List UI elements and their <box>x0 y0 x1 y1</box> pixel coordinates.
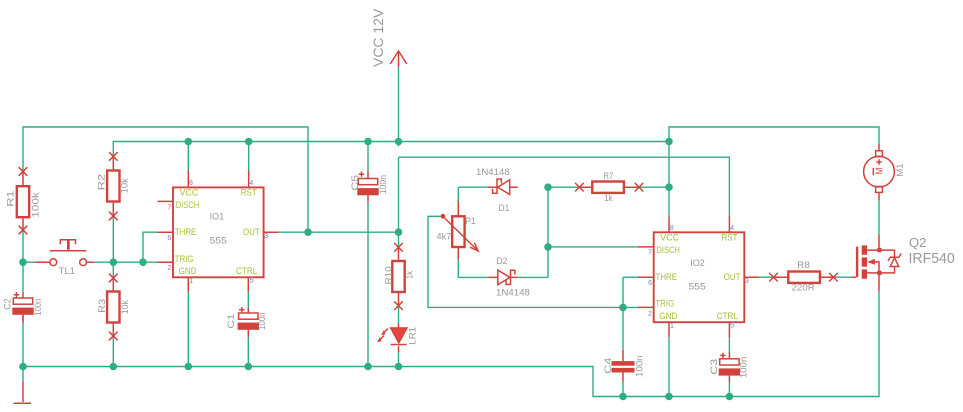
svg-text:R7: R7 <box>603 171 613 181</box>
svg-text:TL1: TL1 <box>59 266 75 276</box>
svg-text:100k: 100k <box>30 192 40 218</box>
svg-text:CTRL: CTRL <box>717 311 738 321</box>
svg-text:3: 3 <box>745 278 749 285</box>
svg-text:8: 8 <box>670 225 674 232</box>
svg-text:D2: D2 <box>497 256 508 266</box>
svg-text:6: 6 <box>167 235 171 242</box>
svg-text:4k7: 4k7 <box>437 232 452 242</box>
svg-text:2: 2 <box>648 310 652 317</box>
svg-text:THRE: THRE <box>175 227 197 237</box>
svg-text:IRF540: IRF540 <box>909 250 955 267</box>
svg-text:100n: 100n <box>33 299 43 316</box>
svg-text:R1: R1 <box>5 191 15 207</box>
svg-text:D1: D1 <box>499 203 510 213</box>
svg-text:M1: M1 <box>895 164 905 177</box>
svg-text:1: 1 <box>670 323 674 330</box>
svg-text:IO2: IO2 <box>690 258 705 268</box>
svg-text:IO1: IO1 <box>210 212 225 222</box>
svg-text:100n: 100n <box>378 175 388 194</box>
svg-text:RST: RST <box>241 188 257 198</box>
svg-text:6: 6 <box>648 280 652 287</box>
svg-text:10k: 10k <box>119 178 129 194</box>
svg-text:555: 555 <box>210 236 227 246</box>
svg-text:VCC: VCC <box>660 232 680 242</box>
svg-text:R2: R2 <box>97 174 107 190</box>
svg-text:7: 7 <box>167 204 171 211</box>
svg-text:100n: 100n <box>738 357 748 379</box>
svg-text:8: 8 <box>189 180 193 187</box>
svg-text:GND: GND <box>179 266 197 276</box>
svg-text:2: 2 <box>167 265 171 272</box>
svg-text:100n: 100n <box>257 313 267 330</box>
svg-text:1N4148: 1N4148 <box>476 167 510 177</box>
svg-text:M: M <box>875 168 886 175</box>
svg-text:1k: 1k <box>604 193 613 203</box>
svg-text:4: 4 <box>249 180 253 187</box>
svg-text:THRE: THRE <box>656 272 678 282</box>
svg-text:5: 5 <box>250 278 254 285</box>
svg-text:OUT: OUT <box>724 272 741 282</box>
svg-text:LR1: LR1 <box>407 327 417 345</box>
svg-text:R8: R8 <box>797 260 810 270</box>
svg-text:DISCH: DISCH <box>656 245 680 255</box>
svg-text:DISCH: DISCH <box>176 200 200 210</box>
svg-text:4: 4 <box>730 225 734 232</box>
svg-text:555: 555 <box>689 282 706 292</box>
svg-text:TRIG: TRIG <box>175 254 194 264</box>
svg-text:GND: GND <box>659 311 677 321</box>
svg-text:CTRL: CTRL <box>236 266 257 276</box>
svg-text:5: 5 <box>730 323 734 330</box>
svg-text:R3: R3 <box>97 299 107 313</box>
svg-text:1: 1 <box>189 278 193 285</box>
svg-text:C2: C2 <box>2 298 12 309</box>
svg-text:C3: C3 <box>709 359 719 375</box>
svg-text:TRIG: TRIG <box>656 299 675 309</box>
svg-text:220R: 220R <box>792 282 816 292</box>
svg-text:100n: 100n <box>635 355 645 377</box>
svg-text:C5: C5 <box>350 175 360 191</box>
svg-text:1k: 1k <box>404 270 414 279</box>
svg-text:VCC: VCC <box>180 188 200 198</box>
svg-text:C4: C4 <box>603 358 613 374</box>
svg-text:VCC 12V: VCC 12V <box>370 8 386 67</box>
svg-text:7: 7 <box>648 249 652 256</box>
svg-text:3: 3 <box>264 233 268 240</box>
svg-text:OUT: OUT <box>243 227 260 237</box>
svg-text:C1: C1 <box>226 314 236 329</box>
svg-text:R10: R10 <box>384 266 394 284</box>
svg-text:P1: P1 <box>465 216 476 226</box>
svg-text:RST: RST <box>722 232 738 242</box>
svg-text:10k: 10k <box>120 300 130 314</box>
svg-text:Q2: Q2 <box>909 235 927 250</box>
svg-text:1N4148: 1N4148 <box>496 288 530 298</box>
